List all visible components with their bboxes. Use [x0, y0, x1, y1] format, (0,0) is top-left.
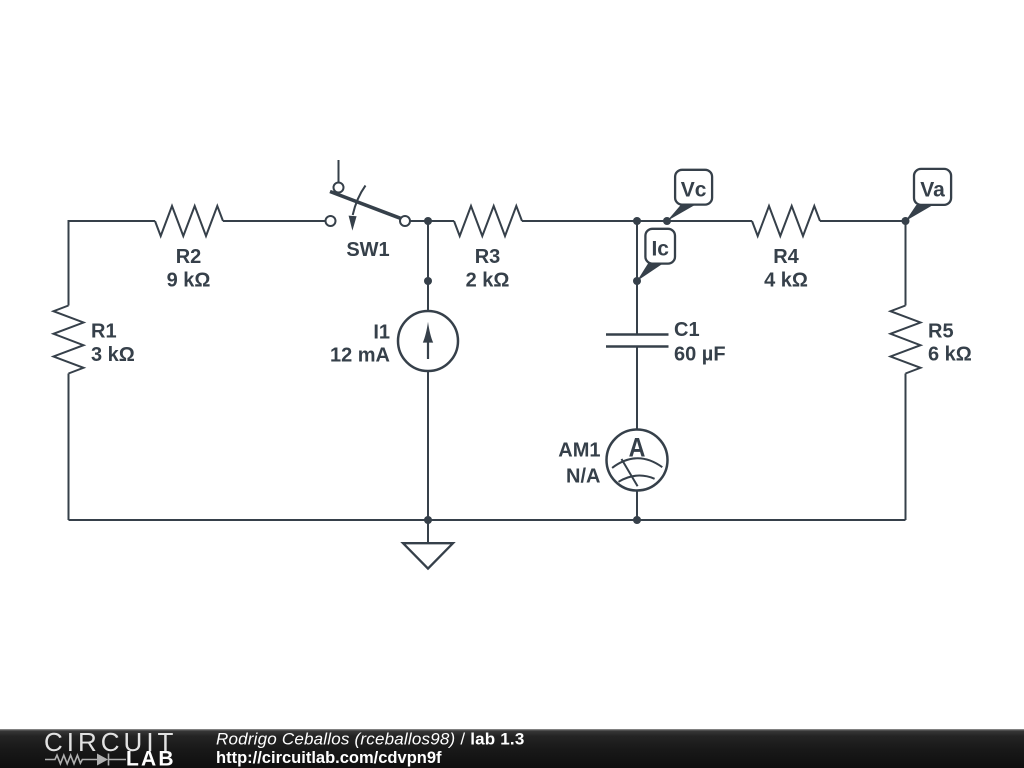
switch SW1 actuation arc arrow [353, 186, 366, 216]
resistor R2 [155, 206, 223, 236]
junction dot node Vc [663, 217, 671, 225]
ground triangle [403, 543, 453, 568]
wire R1 to bottom rail [68, 374, 70, 521]
svg-text:SW1: SW1 [346, 239, 389, 261]
svg-text:I1: I1 [373, 322, 390, 344]
wire bottom rail [69, 519, 906, 521]
svg-text:R3: R3 [475, 246, 501, 268]
wire node Vc down to node Ic [636, 221, 638, 281]
wire C1 to AM1 [636, 347, 638, 431]
footer bar [0, 729, 1024, 768]
logo diode triangle [97, 754, 108, 766]
switch SW1 top terminal circle [334, 183, 344, 193]
svg-text:AM1: AM1 [558, 440, 600, 462]
wire R2 to SW1 left terminal [223, 220, 326, 222]
svg-text:R2: R2 [176, 246, 202, 268]
switch SW1 arrowhead [349, 216, 357, 231]
wire node to R3 [428, 220, 454, 222]
ammeter AM1 needle [622, 459, 638, 486]
flag Va box [914, 169, 951, 205]
svg-text:LAB: LAB [126, 748, 176, 768]
junction dot node Ic [633, 277, 641, 285]
svg-text:R5: R5 [928, 321, 954, 343]
logo resistor-diode art [45, 754, 126, 766]
ammeter AM1 scale arc upper [612, 458, 662, 468]
junction dot above I1 [424, 277, 432, 285]
wire switch node down to I1 [427, 221, 429, 311]
svg-text:Ic: Ic [651, 238, 669, 261]
svg-text:A: A [629, 433, 646, 463]
resistor R4 [752, 206, 820, 236]
flag Ic pointer [637, 264, 663, 282]
junction dot at SW1 node [424, 217, 432, 225]
wire R3 to node Vc [522, 220, 667, 222]
flag Vc pointer [667, 205, 696, 221]
capacitor C1 bottom plate [606, 345, 669, 348]
svg-text:http://circuitlab.com/cdvpn9f: http://circuitlab.com/cdvpn9f [216, 749, 442, 767]
junction dot AM1 bottom [633, 516, 641, 524]
current source I1 arrow [427, 341, 429, 359]
svg-text:N/A: N/A [566, 465, 600, 487]
wire R5 to bottom rail [905, 374, 907, 521]
capacitor C1 top plate [606, 333, 669, 336]
current source I1 arrowhead [423, 322, 433, 343]
resistor R3 [454, 206, 522, 236]
current source I1 [398, 311, 458, 371]
ammeter AM1 circle [607, 430, 668, 491]
svg-text:60 µF: 60 µF [674, 344, 726, 366]
ammeter AM1 scale arc lower [619, 476, 655, 482]
wire I1 to ground node [427, 371, 429, 520]
switch SW1 lever [330, 192, 401, 219]
junction dot at C1 branch [633, 217, 641, 225]
svg-text:R1: R1 [91, 321, 117, 343]
wire R4 to node Va [820, 220, 906, 222]
svg-text:Rodrigo Ceballos (rceballos98): Rodrigo Ceballos (rceballos98) / lab 1.3 [216, 730, 525, 749]
svg-text:Vc: Vc [681, 179, 707, 202]
wire node Ic to C1 [636, 281, 638, 334]
svg-text:12 mA: 12 mA [330, 345, 390, 367]
junction dot ground [424, 516, 432, 524]
svg-text:R4: R4 [773, 246, 799, 268]
wire top-left from corner to R2 [69, 221, 156, 306]
switch SW1 top stub [338, 160, 340, 182]
flag Vc box [675, 170, 712, 205]
switch SW1 right terminal circle [400, 216, 410, 226]
svg-text:C1: C1 [674, 319, 700, 341]
flag Ic box [645, 229, 675, 264]
wire Va node down to R5 [905, 221, 907, 306]
wire AM1 to bottom rail [636, 491, 638, 521]
wire node Vc to R4 [667, 220, 752, 222]
svg-text:2 kΩ: 2 kΩ [466, 270, 510, 292]
svg-text:Va: Va [920, 179, 945, 202]
ground stem [427, 520, 429, 543]
junction dot node Va [902, 217, 910, 225]
resistor R1 [54, 306, 84, 374]
resistor R5 [891, 306, 921, 374]
wire SW1 right terminal to node [410, 220, 428, 222]
svg-text:6 kΩ: 6 kΩ [928, 343, 972, 365]
svg-text:4 kΩ: 4 kΩ [764, 270, 808, 292]
switch SW1 left terminal circle [326, 216, 336, 226]
svg-text:3 kΩ: 3 kΩ [91, 344, 135, 366]
svg-text:9 kΩ: 9 kΩ [167, 270, 211, 292]
flag Va pointer [906, 205, 934, 221]
